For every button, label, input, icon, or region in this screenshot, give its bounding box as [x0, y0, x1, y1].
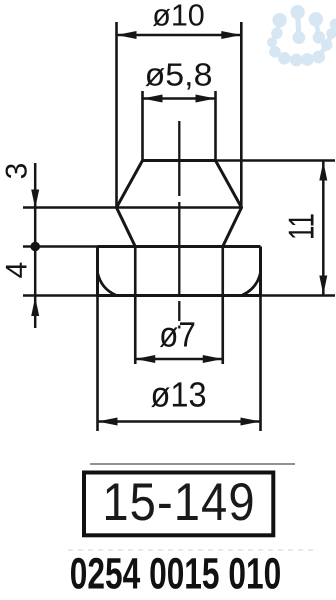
svg-text:ø13: ø13: [150, 376, 206, 415]
svg-text:11: 11: [281, 213, 322, 240]
svg-text:0254 0015 010: 0254 0015 010: [70, 550, 281, 599]
svg-text:15-149: 15-149: [102, 473, 255, 532]
svg-text:ø5,8: ø5,8: [145, 57, 213, 93]
svg-text:3: 3: [1, 163, 34, 180]
svg-text:4: 4: [1, 262, 34, 279]
svg-text:ø7: ø7: [159, 316, 196, 355]
svg-text:ø10: ø10: [152, 0, 205, 33]
